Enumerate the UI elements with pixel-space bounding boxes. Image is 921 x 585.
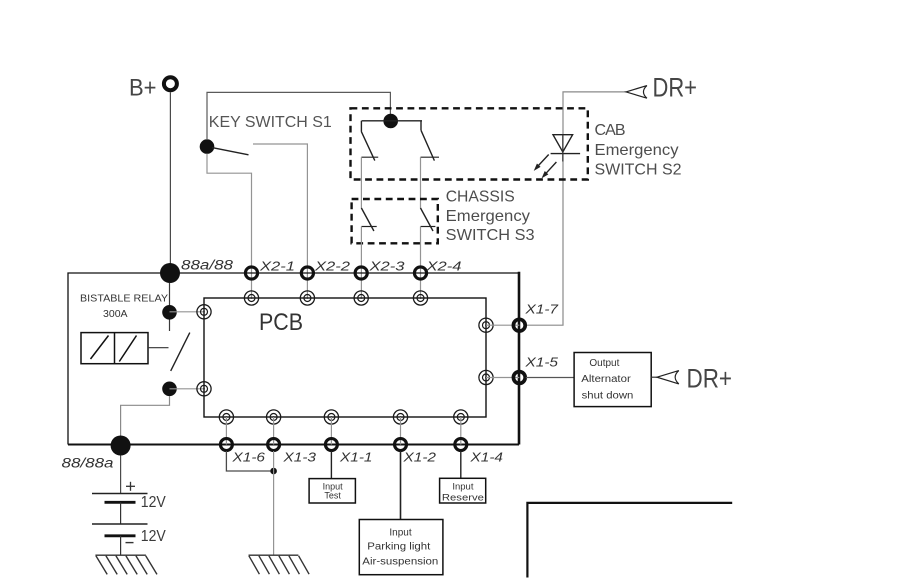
svg-text:X2-1: X2-1 — [259, 258, 295, 273]
svg-text:88a/88: 88a/88 — [181, 258, 234, 273]
PCB board outline — [204, 298, 486, 417]
switch S3 left pole lever — [361, 208, 374, 231]
terminal X2-4 — [414, 267, 426, 279]
switch S3 right fixed contact tick — [421, 226, 436, 228]
svg-text:X1-3: X1-3 — [282, 450, 317, 465]
emergency switch S2 box (dashed) — [351, 108, 588, 179]
svg-text:Input: Input — [389, 528, 411, 539]
switch S2 left fixed contact tick — [361, 156, 378, 158]
svg-text:X1-4: X1-4 — [469, 450, 503, 465]
svg-text:88/88a: 88/88a — [62, 456, 115, 471]
svg-text:PCB: PCB — [259, 309, 303, 336]
switch S2 right fixed contact tick — [421, 156, 440, 158]
wire relay bottom contact to node 88/88a — [121, 396, 170, 436]
wire key switch S1 feed (top horizontal to S2 common) — [207, 92, 390, 139]
relay enclosure box — [68, 273, 519, 445]
ground (X1-3) — [249, 555, 310, 574]
svg-text:X2-4: X2-4 — [425, 258, 461, 273]
PCB pad X2-2 — [300, 291, 314, 305]
box Input Reserve — [440, 478, 486, 503]
svg-text:Emergency: Emergency — [595, 142, 679, 159]
svg-text:300A: 300A — [103, 308, 128, 320]
wire PCB pad right bottom to X1-5 — [486, 377, 519, 379]
relay blade — [171, 333, 190, 371]
PCB pad left bottom — [197, 382, 211, 396]
svg-text:Air-suspension: Air-suspension — [362, 557, 438, 568]
svg-text:DR+: DR+ — [687, 364, 733, 394]
wire S2 left pole down to S3 — [360, 157, 362, 208]
battery minus sign — [126, 542, 134, 544]
relay coil K1 — [81, 333, 148, 364]
PCB pad X2-1 — [244, 291, 258, 305]
LED cathode stub wire — [562, 135, 564, 162]
svg-text:shut down: shut down — [582, 390, 634, 401]
svg-text:X1-6: X1-6 — [231, 450, 266, 465]
svg-text:KEY SWITCH S1: KEY SWITCH S1 — [209, 114, 332, 131]
wire S3 left to X2-3 — [360, 227, 362, 299]
connector DR+ top arrow — [626, 86, 647, 99]
wire S2 right pole down to S3 — [420, 157, 422, 208]
terminal X1-3 — [268, 439, 280, 451]
switch S1 lever — [212, 148, 249, 155]
box Input Test — [309, 479, 355, 503]
emergency switch S3 box (dashed) — [352, 199, 438, 243]
PCB pad bottom 2 — [267, 410, 281, 424]
junction X1-6/X1-3 — [270, 468, 277, 475]
battery plus sign — [126, 482, 135, 491]
box Output Alternator shut down — [574, 353, 651, 407]
svg-text:Input: Input — [452, 482, 473, 493]
wire X1-4 to Input Reserve — [460, 451, 462, 478]
relay actuation link — [148, 347, 169, 349]
svg-text:X1-1: X1-1 — [339, 450, 373, 465]
svg-text:Emergency: Emergency — [446, 208, 530, 225]
wire B+ down to node 88a/88 — [169, 92, 171, 273]
svg-text:12V: 12V — [141, 494, 166, 511]
svg-text:B+: B+ — [129, 75, 157, 102]
svg-text:X1-5: X1-5 — [524, 355, 559, 370]
terminal X1-2 — [395, 439, 407, 451]
LED indicator in S2 — [538, 135, 580, 174]
switch S1 common contact — [200, 139, 215, 154]
terminal X2-3 — [355, 267, 367, 279]
switch S3 right pole lever — [421, 208, 434, 231]
svg-text:CAB: CAB — [595, 122, 626, 139]
wire S2 common bar — [362, 120, 422, 122]
svg-text:Test: Test — [324, 491, 341, 501]
ground (battery) — [95, 555, 157, 574]
wire node 88/88a to battery — [120, 456, 122, 494]
terminal X1-4 — [455, 439, 467, 451]
wire S1 output to X2-1 — [207, 154, 252, 299]
svg-text:SWITCH S2: SWITCH S2 — [595, 162, 682, 179]
box Input Parking light Air-suspension — [359, 520, 443, 575]
terminal X1-7 — [513, 319, 525, 331]
svg-text:BISTABLE RELAY: BISTABLE RELAY — [80, 294, 168, 305]
wire relay bottom contact to PCB — [170, 388, 205, 390]
node 88/88a — [111, 436, 131, 456]
terminal B+ — [164, 77, 177, 90]
PCB pad left top — [197, 305, 211, 319]
terminal X1-6 — [220, 439, 232, 451]
PCB pad right top — [479, 318, 493, 332]
wire DR+ top to LED to X1-7 — [526, 92, 626, 325]
wire S3 right to X2-4 — [420, 227, 422, 299]
LED arrowheads — [535, 164, 540, 170]
PCB pad bottom 3 — [324, 410, 338, 424]
svg-text:CHASSIS: CHASSIS — [446, 188, 515, 205]
wire Output box to DR+ — [651, 376, 657, 378]
svg-text:DR+: DR+ — [653, 73, 698, 103]
wire PCB bottom pads to X1 terminals — [226, 417, 460, 445]
switch S2 left pole lever — [361, 121, 374, 161]
terminal X1-5 — [513, 372, 525, 384]
wire relay top contact to PCB — [170, 311, 205, 313]
switch S3 left fixed contact tick — [361, 226, 376, 228]
relay contact top — [162, 305, 177, 320]
svg-text:12V: 12V — [141, 528, 166, 545]
wire X1-5 to Output box — [526, 377, 574, 379]
svg-text:SWITCH S3: SWITCH S3 — [446, 227, 535, 244]
connector DR+ bottom arrow — [657, 371, 679, 384]
wire battery to ground — [120, 536, 122, 555]
battery 12V cell 1 — [92, 494, 148, 503]
PCB pad X2-4 — [413, 291, 427, 305]
wire between battery cells — [120, 502, 122, 524]
PCB pad bottom 1 — [219, 410, 233, 424]
svg-text:Alternator: Alternator — [581, 374, 631, 385]
switch S2 right pole lever — [421, 121, 434, 161]
svg-text:X1-7: X1-7 — [524, 302, 559, 317]
terminal X2-2 — [301, 267, 313, 279]
svg-text:X2-2: X2-2 — [314, 258, 351, 273]
PCB pad X2-3 — [354, 291, 368, 305]
PCB pad right bottom — [479, 370, 493, 384]
PCB pad bottom 4 — [393, 410, 407, 424]
wire X1-1 to Input Test — [330, 451, 332, 479]
wire X1-3 to ground — [273, 451, 275, 555]
node 88a/88 — [160, 263, 180, 283]
battery 12V cell 2 — [92, 524, 148, 536]
svg-text:Reserve: Reserve — [442, 492, 484, 503]
svg-text:X2-3: X2-3 — [368, 258, 405, 273]
corner of adjacent drawing frame — [527, 503, 732, 578]
svg-text:Output: Output — [589, 358, 619, 369]
terminal X1-1 — [325, 439, 337, 451]
switch S2 common node — [383, 114, 398, 129]
wire node 88a/88 to relay contact — [169, 283, 171, 331]
wire S1 fixed contact to X2-2 — [253, 144, 307, 298]
PCB pad bottom 5 — [454, 410, 468, 424]
wire PCB pad right top to X1-7 (drawn with DR+ run) — [486, 324, 519, 326]
relay contact bottom — [162, 382, 177, 397]
wire X1-2 to Input Parking light — [400, 451, 402, 520]
terminal X2-1 — [245, 267, 257, 279]
wire X1-6 jog to X1-3 net — [226, 451, 271, 471]
svg-text:Parking light: Parking light — [367, 542, 430, 553]
svg-text:X1-2: X1-2 — [402, 450, 437, 465]
